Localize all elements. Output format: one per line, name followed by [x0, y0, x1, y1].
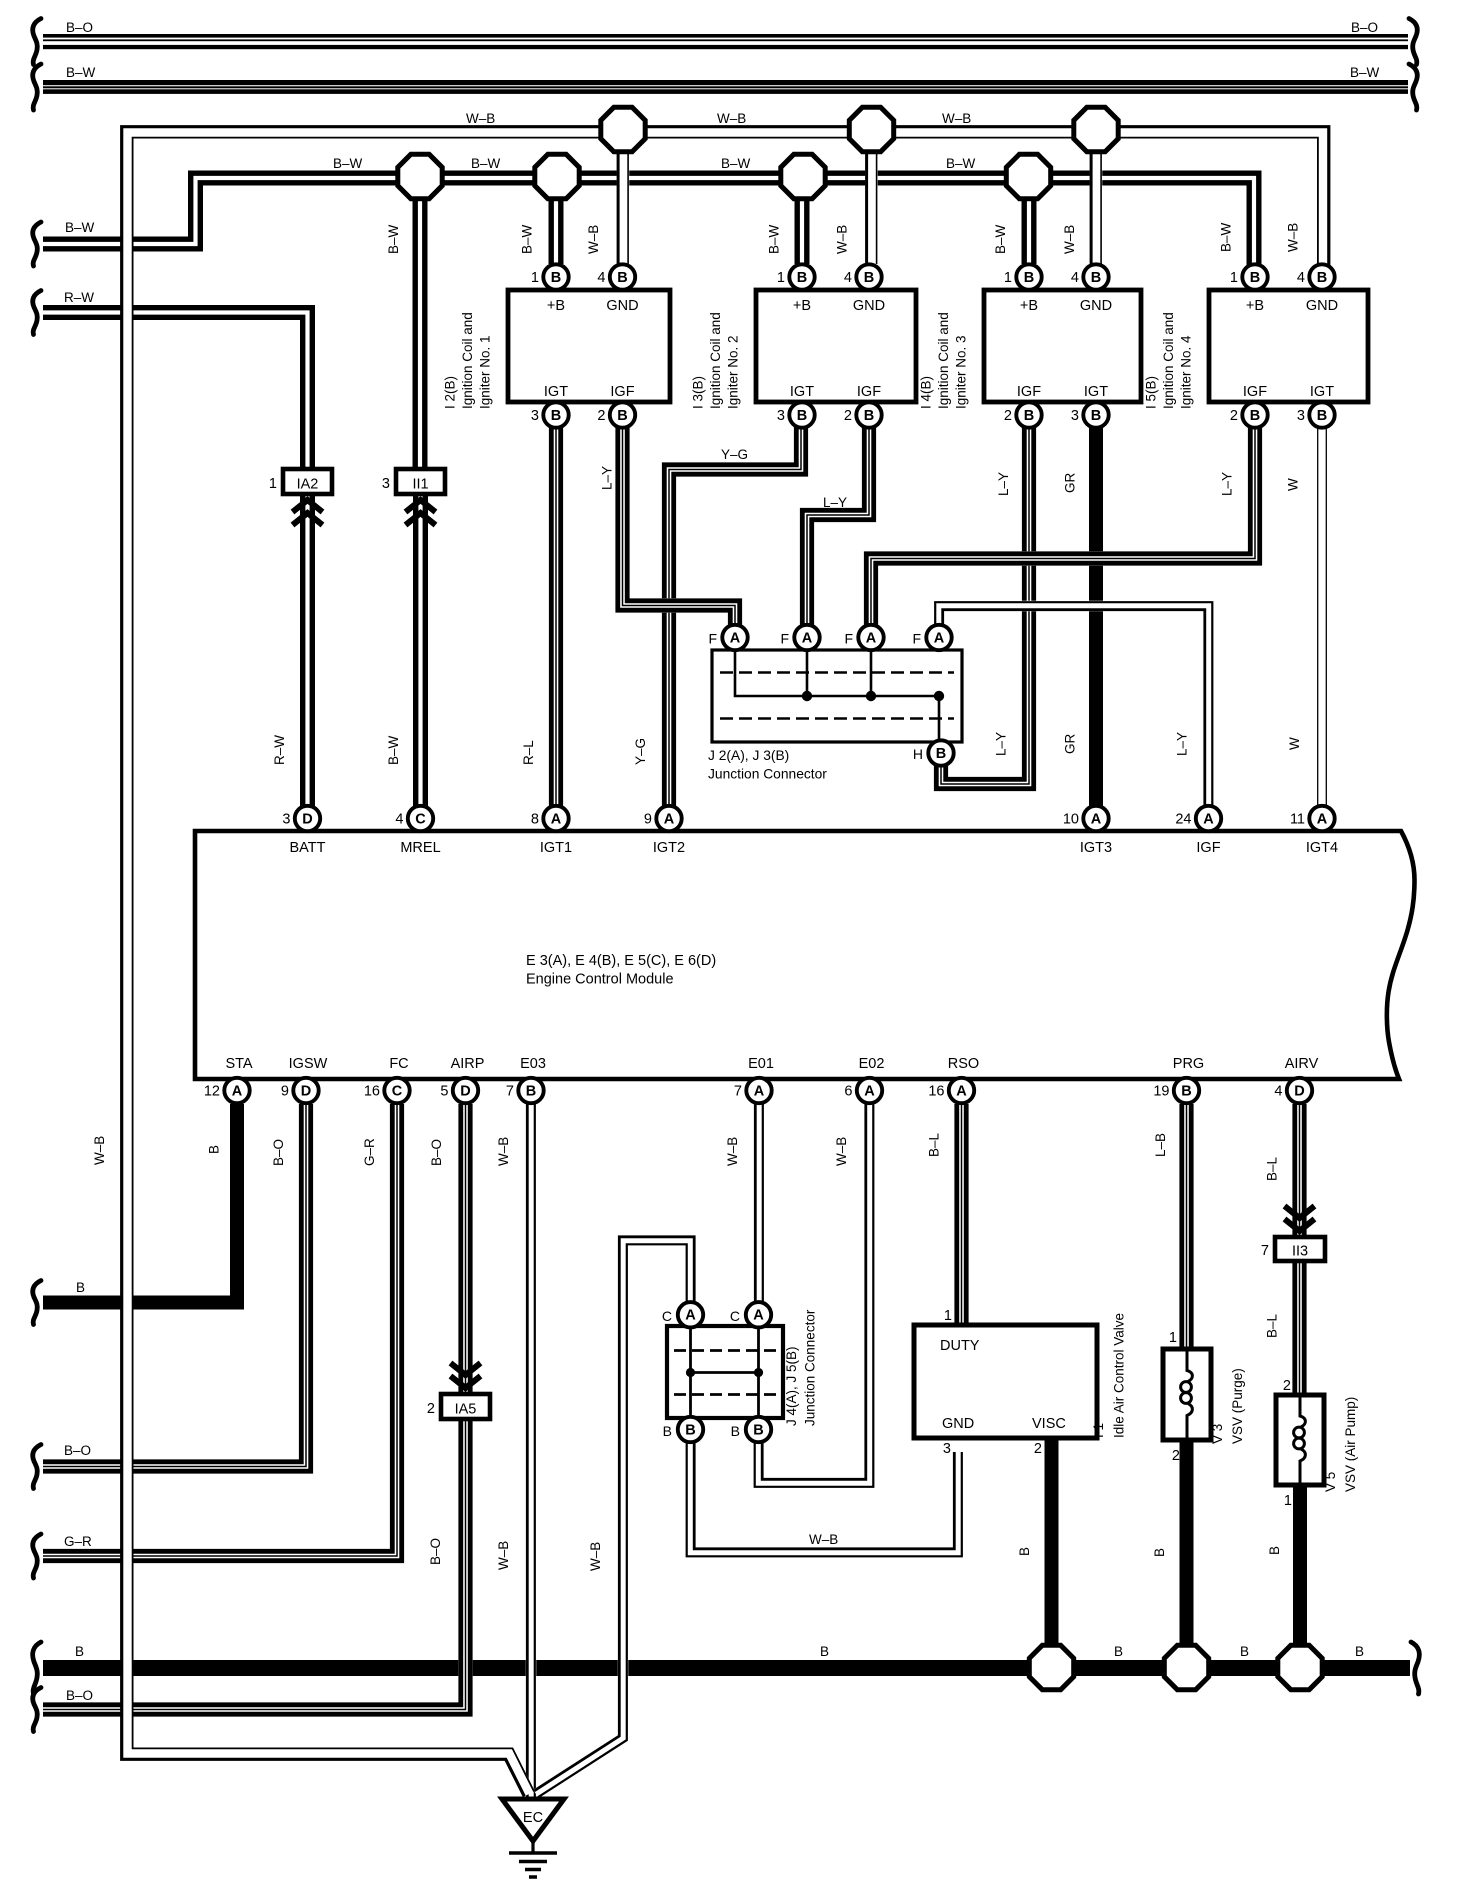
wire R-L ignition coil 1 IGT to ECM IGT1	[551, 415, 560, 807]
wire B-L ECM AIRV through II3 to VSV air pump	[1295, 1104, 1304, 1394]
svg-text:Ignition Coil and: Ignition Coil and	[460, 312, 475, 409]
svg-text:GR: GR	[1063, 733, 1078, 754]
svg-text:R–W: R–W	[272, 735, 287, 765]
svg-text:W–B: W–B	[835, 225, 850, 254]
svg-text:L–Y: L–Y	[996, 472, 1011, 496]
svg-text:A: A	[802, 630, 813, 646]
pin 19 B ECM PRG	[1153, 1078, 1199, 1103]
svg-text:L–Y: L–Y	[1220, 472, 1235, 496]
svg-text:IGF: IGF	[1017, 384, 1041, 400]
svg-text:B: B	[76, 1280, 85, 1295]
label V3 VSV purge	[1210, 1368, 1245, 1444]
wire B solid harness to ECM STA	[43, 1104, 237, 1303]
junction octagon W-B 2	[849, 107, 893, 151]
pin F A junction connector 3	[858, 625, 883, 650]
label I1 idle air control valve	[1091, 1313, 1127, 1438]
connector IA2	[283, 469, 332, 494]
label ignition coil and igniter No. 2	[691, 312, 741, 409]
svg-text:IGT3: IGT3	[1080, 840, 1112, 856]
continuation brace B-O right	[1409, 19, 1417, 65]
svg-text:B: B	[864, 408, 874, 424]
svg-text:VISC: VISC	[1032, 1416, 1066, 1432]
svg-text:II3: II3	[1292, 1244, 1308, 1260]
svg-text:R–W: R–W	[64, 290, 94, 305]
svg-text:A: A	[685, 1308, 696, 1324]
svg-text:GR: GR	[1063, 472, 1078, 493]
svg-text:B: B	[663, 1423, 672, 1439]
svg-text:A: A	[664, 811, 675, 827]
svg-text:3: 3	[943, 1441, 951, 1457]
wire B-W drop octagon to coil 2 +B	[797, 198, 807, 264]
svg-text:2: 2	[427, 1401, 435, 1417]
svg-text:II1: II1	[412, 477, 428, 493]
svg-text:W–B: W–B	[717, 111, 746, 126]
wire L-Y ignition coil 1 IGF to junction F1	[618, 415, 740, 626]
svg-text:Ignition Coil and: Ignition Coil and	[1161, 312, 1176, 409]
svg-text:B–O: B–O	[64, 1443, 91, 1458]
pin 10 A ECM IGT3	[1063, 806, 1109, 831]
svg-text:D: D	[301, 1083, 311, 1099]
svg-text:B–O: B–O	[66, 1688, 93, 1703]
svg-text:L–Y: L–Y	[1175, 732, 1190, 756]
svg-text:R–L: R–L	[521, 740, 536, 765]
wire B-W drop octagon to coil 1 +B	[551, 198, 561, 264]
svg-text:EC: EC	[523, 1810, 543, 1826]
arrow into IA2	[293, 500, 323, 525]
svg-text:2: 2	[1172, 1448, 1180, 1464]
svg-text:1: 1	[1169, 1330, 1177, 1346]
svg-text:I 5(B): I 5(B)	[1144, 376, 1159, 409]
svg-text:B: B	[1250, 270, 1260, 286]
svg-text:W–B: W–B	[1286, 223, 1301, 252]
svg-text:4: 4	[844, 270, 852, 286]
bus B-O top rail	[43, 34, 1408, 49]
pin 4 B coil No. 3 GND	[1071, 264, 1109, 289]
svg-text:2: 2	[1230, 408, 1238, 424]
pin C A junction J4 J5 1	[678, 1302, 703, 1327]
svg-text:9: 9	[644, 812, 652, 828]
wire L-Y ignition coil 4 IGF to junction F3	[866, 415, 1259, 626]
svg-text:B–O: B–O	[428, 1538, 443, 1565]
svg-text:W–B: W–B	[588, 1542, 603, 1571]
svg-text:3: 3	[282, 812, 290, 828]
svg-text:IA5: IA5	[455, 1402, 477, 1418]
svg-text:A: A	[232, 1083, 243, 1099]
pin 4 B coil No. 2 GND	[844, 264, 882, 289]
svg-text:GND: GND	[942, 1416, 974, 1432]
svg-text:B: B	[820, 1644, 829, 1659]
svg-text:7: 7	[506, 1084, 514, 1100]
pin 2 B coil No. 2 IGF	[844, 402, 882, 427]
svg-text:F: F	[708, 631, 717, 647]
wire R-W stub to IA2	[43, 308, 312, 468]
pin 5 D ECM AIRP	[440, 1078, 478, 1103]
wire B solid VSV air pump to ground bus	[1293, 1485, 1307, 1655]
svg-text:3: 3	[382, 476, 390, 492]
svg-text:DUTY: DUTY	[940, 1338, 980, 1354]
svg-text:IGF: IGF	[857, 384, 881, 400]
svg-text:A: A	[551, 811, 562, 827]
svg-text:L–Y: L–Y	[994, 732, 1009, 756]
svg-text:24: 24	[1175, 812, 1191, 828]
svg-text:B–W: B–W	[520, 224, 535, 254]
svg-text:+B: +B	[547, 298, 565, 314]
svg-text:D: D	[1294, 1083, 1304, 1099]
svg-text:4: 4	[1297, 270, 1305, 286]
svg-text:2: 2	[1283, 1378, 1291, 1394]
pin F A junction connector 1	[722, 625, 747, 650]
svg-text:6: 6	[844, 1084, 852, 1100]
pin B B junction J4 J5 1	[678, 1417, 703, 1442]
svg-text:Ignition Coil and: Ignition Coil and	[708, 312, 723, 409]
junction octagon B-W 2	[535, 154, 579, 198]
svg-text:B: B	[1250, 408, 1260, 424]
continuation brace B-O stub	[33, 1445, 41, 1489]
svg-text:A: A	[1317, 811, 1328, 827]
svg-text:IA2: IA2	[297, 477, 319, 493]
svg-text:W–B: W–B	[92, 1136, 107, 1165]
svg-text:C: C	[392, 1083, 403, 1099]
arrow into II1	[406, 500, 436, 525]
pin 1 B coil No. 4 +B	[1230, 264, 1268, 289]
svg-text:W–B: W–B	[725, 1137, 740, 1166]
wire W-B drop octagon 1 to coil 1 GND	[618, 150, 628, 264]
pin B B junction J4 J5 2	[746, 1417, 771, 1442]
svg-text:PRG: PRG	[1173, 1056, 1204, 1072]
pin 3 B coil No. 3 IGT	[1071, 402, 1109, 427]
VSV air pump coil	[1294, 1398, 1306, 1483]
svg-text:3: 3	[777, 408, 785, 424]
wire W-B IAC valve GND to junction B1	[687, 1442, 962, 1556]
svg-text:W–B: W–B	[496, 1137, 511, 1166]
svg-text:B–W: B–W	[767, 224, 782, 254]
svg-text:B–W: B–W	[65, 220, 95, 235]
svg-text:Idle Air Control Valve: Idle Air Control Valve	[1112, 1313, 1127, 1438]
svg-text:I 1: I 1	[1091, 1423, 1106, 1438]
wire W-B ECM E02 to junction B2	[755, 1104, 874, 1487]
arrow into II3	[1285, 1206, 1315, 1231]
svg-text:W: W	[1287, 737, 1302, 750]
pin C A junction J4 J5 2	[746, 1302, 771, 1327]
svg-text:I 4(B): I 4(B)	[919, 376, 934, 409]
ignition coil No. 1 pin labels	[544, 298, 639, 400]
wire B-W drop octagon to II1	[415, 198, 425, 468]
svg-text:7: 7	[734, 1084, 742, 1100]
svg-text:F: F	[912, 631, 921, 647]
junction octagon B bus 3	[1278, 1645, 1322, 1689]
wire B solid VISC to ground bus	[1045, 1438, 1059, 1655]
svg-text:B: B	[75, 1644, 84, 1659]
svg-text:V 5: V 5	[1323, 1472, 1338, 1492]
svg-text:GND: GND	[606, 298, 638, 314]
svg-text:3: 3	[1071, 408, 1079, 424]
junction octagon W-B 1	[601, 107, 645, 151]
junction octagon B-W 1	[398, 154, 442, 198]
wire W-B drop octagon 3 to coil 3 GND	[1091, 150, 1101, 264]
svg-text:B–W: B–W	[386, 224, 401, 254]
svg-text:IGT2: IGT2	[653, 840, 685, 856]
pin 9 A ECM IGT2	[644, 806, 682, 831]
ignition coil and igniter No. 1 body	[508, 290, 670, 402]
idle air control valve I1 body	[914, 1325, 1097, 1438]
pin F A junction connector 4	[926, 625, 951, 650]
svg-text:2: 2	[844, 408, 852, 424]
svg-text:B: B	[864, 270, 874, 286]
continuation brace B-W right	[1409, 64, 1417, 110]
svg-text:Ignition Coil and: Ignition Coil and	[936, 312, 951, 409]
svg-text:+B: +B	[1246, 298, 1264, 314]
pin 2 B coil No. 1 IGF	[597, 402, 635, 427]
svg-text:D: D	[302, 811, 312, 827]
svg-text:B: B	[797, 270, 807, 286]
svg-text:B: B	[936, 746, 946, 762]
svg-text:Igniter No. 3: Igniter No. 3	[954, 335, 969, 409]
svg-text:B–W: B–W	[1350, 65, 1380, 80]
junction octagon B bus 1	[1029, 1645, 1073, 1689]
svg-text:B–W: B–W	[721, 156, 751, 171]
svg-text:IGT: IGT	[1310, 384, 1334, 400]
wire W-B junction C1 to ground EC	[534, 1237, 694, 1797]
continuation brace B-W stub	[33, 222, 41, 266]
svg-text:10: 10	[1063, 812, 1079, 828]
wire W ignition coil 4 IGT to ECM IGT4	[1318, 415, 1327, 807]
ground EC symbol	[502, 1799, 564, 1877]
svg-text:+B: +B	[1020, 298, 1038, 314]
svg-text:VSV (Air Pump): VSV (Air Pump)	[1343, 1397, 1358, 1492]
pin 4 D ECM AIRV	[1274, 1078, 1312, 1103]
svg-text:L–B: L–B	[1153, 1133, 1168, 1157]
svg-text:Junction Connector: Junction Connector	[708, 767, 827, 782]
svg-text:B–O: B–O	[271, 1139, 286, 1166]
svg-text:4: 4	[1274, 1084, 1282, 1100]
junction connector J4 J5 body	[667, 1326, 783, 1418]
svg-text:1: 1	[1284, 1493, 1292, 1509]
wire G-R harness to ECM FC	[43, 1104, 402, 1561]
svg-text:IGT: IGT	[790, 384, 814, 400]
wire GR ignition coil 3 IGT to ECM IGT3	[1089, 415, 1103, 807]
svg-text:B: B	[1317, 270, 1327, 286]
VSV purge coil	[1181, 1352, 1193, 1438]
svg-text:I 3(B): I 3(B)	[691, 376, 706, 409]
svg-text:IGT1: IGT1	[540, 840, 572, 856]
svg-text:19: 19	[1153, 1084, 1169, 1100]
svg-text:B: B	[617, 408, 627, 424]
wire W-B ECM E03 to ground EC	[527, 1104, 535, 1797]
pin 6 A ECM E02	[844, 1078, 882, 1103]
svg-text:11: 11	[1290, 812, 1305, 828]
svg-text:W–B: W–B	[496, 1541, 511, 1570]
bus B-W top rail	[43, 80, 1408, 94]
svg-text:W: W	[1286, 478, 1301, 491]
svg-text:B–L: B–L	[927, 1132, 942, 1157]
svg-text:C: C	[415, 811, 426, 827]
svg-text:B: B	[207, 1145, 222, 1154]
svg-text:A: A	[753, 1308, 764, 1324]
continuation brace B stub	[33, 1281, 41, 1325]
svg-text:B–L: B–L	[1265, 1313, 1280, 1338]
svg-text:B–O: B–O	[66, 20, 93, 35]
svg-text:+B: +B	[793, 298, 811, 314]
svg-text:B–O: B–O	[429, 1139, 444, 1166]
svg-text:V 3: V 3	[1210, 1424, 1225, 1444]
ignition coil No. 2 pin labels	[790, 298, 885, 400]
svg-text:AIRV: AIRV	[1285, 1056, 1319, 1072]
pin 1 B coil No. 3 +B	[1004, 264, 1042, 289]
junction octagon W-B 3	[1074, 107, 1118, 151]
pin F A junction connector 2	[794, 625, 819, 650]
svg-text:7: 7	[1261, 1243, 1269, 1259]
pin 7 A ECM E01	[734, 1078, 772, 1103]
svg-text:IGF: IGF	[1243, 384, 1267, 400]
svg-text:B–W: B–W	[333, 156, 363, 171]
svg-text:G–R: G–R	[64, 1534, 92, 1549]
svg-text:1: 1	[944, 1308, 952, 1324]
svg-text:9: 9	[281, 1084, 289, 1100]
continuation brace B bus right	[1411, 1642, 1419, 1694]
ignition coil and igniter No. 3 body	[984, 290, 1141, 402]
svg-text:A: A	[754, 1083, 765, 1099]
svg-text:C: C	[662, 1308, 672, 1324]
svg-text:B–W: B–W	[386, 735, 401, 765]
svg-text:B: B	[1317, 408, 1327, 424]
svg-text:W–B: W–B	[942, 111, 971, 126]
svg-text:W–B: W–B	[809, 1532, 838, 1547]
wire B-L ECM RSO to IAC valve DUTY	[957, 1104, 966, 1324]
svg-text:B–L: B–L	[1265, 1156, 1280, 1181]
wire L-B ECM PRG to VSV purge	[1182, 1104, 1191, 1348]
pin 16 C ECM FC	[364, 1078, 410, 1103]
svg-text:1: 1	[1230, 270, 1238, 286]
svg-text:B: B	[1114, 1644, 1123, 1659]
wire R-W IA2 to ECM BATT	[303, 495, 313, 807]
svg-text:RSO: RSO	[948, 1056, 979, 1072]
svg-text:Igniter No. 4: Igniter No. 4	[1179, 335, 1194, 409]
svg-text:W–B: W–B	[466, 111, 495, 126]
svg-text:IGSW: IGSW	[289, 1056, 328, 1072]
junction octagon B-W 4	[1006, 154, 1050, 198]
svg-text:A: A	[1091, 811, 1102, 827]
svg-text:B–W: B–W	[1219, 222, 1234, 252]
svg-text:3: 3	[531, 408, 539, 424]
pin 4 C ECM MREL	[395, 806, 433, 831]
svg-text:A: A	[1203, 811, 1214, 827]
svg-text:B: B	[1024, 408, 1034, 424]
label ignition coil and igniter No. 1	[443, 312, 493, 409]
continuation brace B-O bottom stub	[33, 1688, 41, 1732]
svg-text:E 3(A), E 4(B), E 5(C), E 6(D): E 3(A), E 4(B), E 5(C), E 6(D)	[526, 953, 716, 969]
svg-text:E03: E03	[520, 1056, 546, 1072]
svg-text:VSV (Purge): VSV (Purge)	[1230, 1368, 1245, 1444]
junction octagon B bus 2	[1164, 1645, 1208, 1689]
svg-text:AIRP: AIRP	[451, 1056, 485, 1072]
svg-text:B: B	[1091, 408, 1101, 424]
junction connector J2 J3 body	[712, 650, 962, 742]
svg-text:B: B	[1017, 1547, 1032, 1556]
svg-text:G–R: G–R	[362, 1138, 377, 1166]
svg-text:BATT: BATT	[290, 840, 326, 856]
svg-text:B–W: B–W	[471, 156, 501, 171]
svg-text:A: A	[866, 630, 877, 646]
svg-text:D: D	[460, 1083, 470, 1099]
svg-text:1: 1	[1004, 270, 1012, 286]
pin 12 A ECM STA	[204, 1078, 250, 1103]
junction octagon B-W 3	[781, 154, 825, 198]
ECM box E3 E4 E5 E6 Engine Control Module	[195, 831, 1415, 1079]
wire B-W drop octagon to coil 3 +B	[1024, 198, 1034, 264]
wire Y-G ignition coil 2 IGT to ECM IGT2	[664, 415, 805, 807]
svg-text:B–O: B–O	[1351, 20, 1378, 35]
svg-text:Y–G: Y–G	[633, 738, 648, 765]
ignition coil and igniter No. 4 body	[1209, 290, 1368, 402]
svg-text:L–Y: L–Y	[823, 495, 847, 510]
continuation brace B-O left	[33, 19, 41, 65]
svg-text:B: B	[551, 270, 561, 286]
svg-text:2: 2	[597, 408, 605, 424]
wire L-Y ignition coil 2 IGF to junction F2	[802, 415, 873, 626]
svg-text:A: A	[864, 1083, 875, 1099]
svg-text:12: 12	[204, 1084, 220, 1100]
pin 8 A ECM IGT1	[531, 806, 569, 831]
connector IA5	[441, 1394, 490, 1419]
pin 16 A ECM RSO	[928, 1078, 974, 1103]
continuation brace G-R stub	[33, 1534, 41, 1578]
svg-text:B: B	[731, 1423, 740, 1439]
svg-text:A: A	[934, 630, 945, 646]
svg-text:B: B	[1240, 1644, 1249, 1659]
svg-text:5: 5	[440, 1084, 448, 1100]
label ignition coil and igniter No. 4	[1144, 312, 1194, 409]
continuation brace B-W left	[33, 64, 41, 110]
wire L-Y junction F4 to ECM IGF	[935, 602, 1212, 807]
label J4 J5 junction connector	[784, 1309, 818, 1426]
wire B solid VSV purge to ground bus	[1180, 1440, 1194, 1655]
pin 11 A ECM IGT4	[1290, 806, 1335, 831]
svg-text:16: 16	[364, 1084, 380, 1100]
svg-text:GND: GND	[1306, 298, 1338, 314]
label V5 VSV air pump	[1323, 1397, 1358, 1492]
svg-text:8: 8	[531, 812, 539, 828]
svg-text:B–W: B–W	[993, 224, 1008, 254]
wire B-O ECM AIRP through IA5 to harness	[43, 1104, 470, 1714]
VSV purge V3 body	[1163, 1349, 1211, 1440]
svg-text:Junction Connector: Junction Connector	[803, 1309, 818, 1426]
svg-text:B–W: B–W	[946, 156, 976, 171]
svg-text:B: B	[1355, 1644, 1364, 1659]
svg-text:E02: E02	[859, 1056, 885, 1072]
svg-text:IGT: IGT	[1084, 384, 1108, 400]
pin H B junction connector	[928, 740, 953, 765]
wire W-B bus from coil grounds down left side to ground EC	[122, 127, 1329, 1797]
svg-text:4: 4	[597, 270, 605, 286]
svg-text:W–B: W–B	[1062, 225, 1077, 254]
svg-text:I 2(B): I 2(B)	[443, 376, 458, 409]
svg-text:B: B	[1267, 1546, 1282, 1555]
continuation brace B bus left	[33, 1642, 41, 1694]
svg-text:W–B: W–B	[834, 1137, 849, 1166]
pin 24 A ECM IGF	[1175, 806, 1221, 831]
pin 4 B coil No. 4 GND	[1297, 264, 1335, 289]
pin 7 B ECM E03	[506, 1078, 544, 1103]
svg-text:B: B	[685, 1422, 695, 1438]
ignition coil No. 3 pin labels	[1017, 298, 1112, 400]
ignition coil No. 4 pin labels	[1243, 298, 1338, 400]
arrow into IA5	[451, 1363, 481, 1388]
svg-text:4: 4	[395, 812, 403, 828]
pin 3 B coil No. 4 IGT	[1297, 402, 1335, 427]
ignition coil and igniter No. 2 body	[756, 290, 916, 402]
bus B ground rail	[43, 1660, 1410, 1676]
svg-text:J 4(A), J 5(B): J 4(A), J 5(B)	[784, 1346, 799, 1426]
